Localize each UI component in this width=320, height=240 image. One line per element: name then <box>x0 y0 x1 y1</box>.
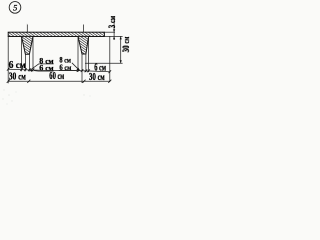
30cm vertical dimension line <box>120 36 122 63</box>
leader from 8cm rib2 <box>72 63 80 71</box>
slab (flange), hatched <box>8 32 104 36</box>
leader from 8cm shelf to rib1 <box>30 64 39 70</box>
3cm dim arrows <box>113 29 115 32</box>
leader from 6cm shelf to rib1 <box>34 70 39 73</box>
background speckles <box>2 23 90 104</box>
axis line above rib 1 <box>26 25 28 33</box>
rib 2 (tapered web), hatched <box>78 36 89 54</box>
rib1 bottom-right extension <box>28 54 30 71</box>
svg-text:5: 5 <box>13 3 17 12</box>
svg-text:3 см: 3 см <box>107 16 117 28</box>
rib2 bottom-right extension <box>85 54 87 72</box>
axis line above rib 2 <box>83 25 85 33</box>
svg-text:60 см: 60 см <box>49 69 64 81</box>
rib1 top-right extension <box>32 36 34 71</box>
svg-text:30 см: 30 см <box>121 37 131 53</box>
right edge extension line <box>109 36 111 82</box>
3cm vertical dimension line <box>113 17 115 40</box>
30cm dim arrows <box>120 36 122 39</box>
svg-text:30 см: 30 см <box>9 70 26 81</box>
row1 tick marks <box>7 68 111 73</box>
svg-text:30 см: 30 см <box>89 71 105 83</box>
rib2 top-left extension <box>77 36 79 72</box>
rib 1 (tapered web), hatched <box>22 36 34 54</box>
dimension line row 1 (6/8/6 cm), slightly tilted as in scan <box>8 69 110 72</box>
rib1 top-left extension <box>21 36 23 71</box>
left edge extension line <box>7 36 9 83</box>
slab bottom edge extension to 30cm dim <box>104 35 122 37</box>
section label circle 5 <box>9 2 21 14</box>
bottom extension line for 30cm vertical dim <box>85 62 123 64</box>
svg-text:6 см: 6 см <box>9 60 26 71</box>
rib2 top-right extension <box>88 36 90 72</box>
slab top edge extension to 3cm dim <box>104 31 115 33</box>
rib1 bottom-left extension <box>24 54 26 71</box>
row2 tick marks <box>7 80 112 83</box>
dimension line row 2 (30/60/30 cm) <box>8 80 110 82</box>
rib2 bottom-left extension <box>81 54 83 83</box>
